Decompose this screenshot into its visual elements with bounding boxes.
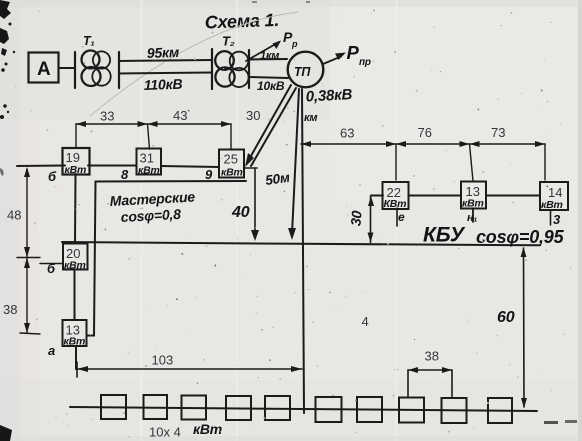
bottom feeder line [70,407,537,411]
svg-text:КБУ: КБУ [423,224,466,247]
box 13kW (a) [63,320,87,346]
svg-text:8: 8 [121,167,129,182]
svg-text:73: 73 [491,125,505,140]
svg-text:10кВ: 10кВ [257,79,285,93]
svg-text:КВт: КВт [384,198,407,210]
dimension 40 [244,167,257,169]
svg-text:cosφ=0,8: cosφ=0,8 [120,206,181,225]
svg-text:60: 60 [497,309,515,326]
svg-text:Т₂: Т₂ [222,34,235,49]
svg-text:76: 76 [418,125,432,140]
label 10x4 kW [149,421,222,440]
substation TP circle [288,52,324,88]
masterskie building outline [87,181,247,336]
house load square 4 [226,396,251,420]
svg-text:38: 38 [3,302,17,317]
10kV line 1km (double line) [249,58,287,61]
dimension 30 (right, rotated) [370,196,372,243]
label KBU cos=0.95 [423,224,565,248]
svg-text:3: 3 [553,212,561,227]
right loads line [371,195,383,197]
svg-text:63: 63 [340,126,354,141]
svg-text:10x 4: 10x 4 [149,425,181,440]
svg-text:30: 30 [246,108,260,123]
box 19kW [63,148,90,175]
vertical feeder 19-20-13 [74,174,77,243]
svg-text:ТП: ТП [294,65,311,79]
transformer T1 [75,51,119,89]
house load square 10 [488,398,512,423]
svg-text:40: 40 [231,204,250,221]
arrow Ppr [323,57,341,65]
svg-text:кВт: кВт [193,421,222,437]
line 50m from TP [292,89,299,234]
svg-text:кВт: кВт [541,199,563,211]
svg-text:110кВ: 110кВ [144,76,183,93]
svg-text:43: 43 [173,108,187,123]
svg-text:р: р [291,39,298,49]
svg-text:н₁: н₁ [467,212,477,224]
svg-text:б: б [47,261,56,276]
box 25kW [219,150,244,178]
box 20kW [40,263,63,265]
svg-text:Т₁: Т₁ [83,34,95,48]
svg-text:19: 19 [66,150,80,165]
house load square 1 [101,395,126,419]
svg-text:кВт: кВт [64,260,86,272]
label 4 (building) [362,314,369,329]
box 31kW [137,149,162,175]
svg-text:30: 30 [347,210,364,227]
dimension 103 [77,368,302,370]
feeder TP to box 25 (double slant) [247,85,291,163]
svg-text:е: е [398,210,405,224]
transformer T2 [212,49,249,89]
box 22kW [383,182,409,209]
house load square 6 [316,397,342,422]
svg-text:33: 33 [100,109,114,124]
label km [304,112,317,124]
svg-text:кВт: кВт [462,198,484,210]
svg-text:31: 31 [140,151,154,166]
house load square 7 [357,397,382,422]
wire A to T1 [59,67,76,69]
svg-text:а: а [48,343,55,358]
title "Схема 1." [204,10,279,33]
svg-text:4: 4 [362,314,369,329]
svg-text:95км: 95км [147,44,181,61]
110kV line 95km (double line) [119,60,212,61]
arrow Pp [246,42,279,61]
faint pencil arc artifact [90,12,298,116]
svg-text:0,38кВ: 0,38кВ [305,86,353,105]
svg-text:cosφ=0,95: cosφ=0,95 [476,227,565,247]
svg-text:Схема 1.: Схема 1. [204,10,279,33]
svg-text:км: км [304,112,317,124]
svg-text:кВт: кВт [138,165,160,177]
box 13kW (n1) [461,182,486,209]
house load square 5 [265,396,290,420]
svg-text:A: A [37,59,51,80]
building 4 top line [62,242,540,245]
dimension line 33/43 [76,124,231,149]
source A box [29,53,59,83]
label 0,38kV [305,86,353,105]
svg-text:кВт: кВт [64,336,86,348]
box 14kW [540,182,568,210]
svg-text:пр: пр [359,57,371,68]
dimension 60 [523,248,526,407]
svg-text:38: 38 [425,349,439,364]
house load square 3 [182,396,207,420]
svg-text:14: 14 [548,185,562,200]
svg-text:48: 48 [7,208,21,223]
house load square 2 [144,395,168,419]
svg-text:P: P [347,42,360,63]
svg-text:кВт: кВт [221,167,243,179]
dimension 38 (bottom) [408,369,452,371]
left feeder line through 19/31/25 [17,165,65,168]
left dimension 48/38 [17,169,40,334]
main vertical feeder from TP [302,89,304,413]
svg-text:б: б [48,169,57,184]
svg-text:9: 9 [205,167,213,182]
svg-text:25: 25 [224,152,238,167]
dimension line 63/76/73 [301,144,545,181]
house load square 9 [442,398,467,423]
house load square 8 [399,398,424,423]
svg-text:103: 103 [152,353,174,368]
